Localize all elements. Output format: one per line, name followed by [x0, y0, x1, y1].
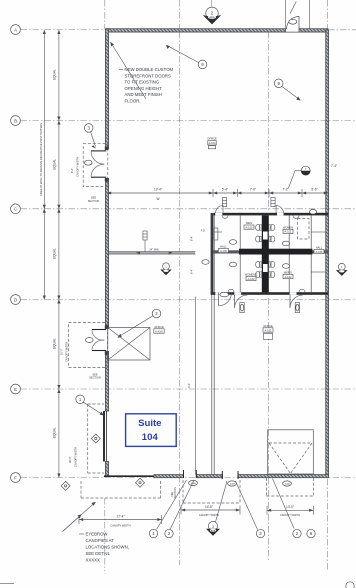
svg-text:MEN: MEN: [246, 221, 252, 225]
svg-text:OFFICE: OFFICE: [207, 137, 217, 141]
dimension arrows at grids: [43, 30, 61, 478]
svg-text:3: 3: [212, 525, 214, 529]
keynote circle 9 (top): [166, 45, 207, 69]
bottom-left border tick: [0, 583, 14, 585]
svg-text:14'-6": 14'-6": [205, 505, 213, 509]
bottom canopy dashes left: [81, 481, 161, 498]
svg-text:A-104: A-104: [285, 275, 292, 279]
core top wall: [214, 213, 329, 216]
bottom door 103B: [222, 471, 238, 486]
canopy dim left 17'-4": [79, 514, 162, 527]
central horizontal plumbing wall: [239, 249, 312, 255]
svg-text:13'-4": 13'-4": [154, 188, 162, 192]
svg-text:W: W: [156, 197, 159, 201]
svg-text:HALL: HALL: [220, 244, 227, 248]
keynote diamonds bottom: [61, 481, 70, 490]
svg-text:26'-0": 26'-0": [68, 456, 72, 463]
svg-text:CANOPY WIDTH: CANOPY WIDTH: [199, 513, 219, 517]
svg-text:A-104: A-104: [209, 141, 216, 145]
svg-text:XXXXX: XXXXX: [86, 558, 100, 563]
right wall: [326, 30, 329, 476]
left dimension chain lines: [43, 30, 45, 300]
svg-text:SECTION: SECTION: [89, 376, 101, 380]
hall door at core bottom-left: [215, 292, 231, 306]
grid bubble E: [11, 384, 21, 394]
grid line D: [21, 299, 356, 301]
svg-text:A-106: A-106: [316, 250, 323, 254]
24 MIN label + arrows on wall: [136, 251, 173, 254]
grid bubble A: [11, 25, 21, 35]
bottom canopy dashes mid: [183, 480, 240, 503]
ADA symbol bottom (3): [206, 521, 220, 535]
svg-text:104: 104: [142, 432, 159, 443]
svg-text:SECTION: SECTION: [88, 199, 100, 203]
Suite 104 box: [126, 414, 177, 447]
svg-text:7'-2": 7'-2": [282, 188, 288, 192]
core top door arcs: [216, 206, 223, 213]
svg-text:A-101: A-101: [285, 230, 292, 234]
F-entry canopy dashes: [68, 404, 104, 473]
grid line E: [21, 388, 356, 390]
svg-text:CANOPY WIDTH: CANOPY WIDTH: [76, 157, 80, 177]
keynote circle 2 with leader (Suite area): [117, 309, 161, 337]
svg-text:OPENING HEIGHT: OPENING HEIGHT: [125, 86, 163, 91]
svg-text:CANOPIES AT: CANOPIES AT: [86, 538, 115, 543]
lavs: [222, 215, 228, 218]
svg-text:A-100: A-100: [246, 225, 253, 229]
svg-text:EQUAL: EQUAL: [53, 69, 57, 80]
interior wall vertical (demising): [211, 213, 213, 475]
svg-text:13'-0": 13'-0": [286, 505, 294, 509]
canopy dim mid 14'-6": [181, 505, 240, 517]
grid line C: [21, 208, 356, 210]
svg-text:CANOPY WIDTH: CANOPY WIDTH: [65, 342, 69, 362]
mid horizontal wall thin: [213, 250, 328, 253]
svg-text:103A: 103A: [190, 482, 196, 485]
svg-text:4'-4": 4'-4": [187, 383, 191, 388]
eyebrow canopies note: [63, 502, 129, 563]
storefront note text: [111, 42, 174, 104]
restroom core: [211, 213, 328, 295]
svg-text:ADA: ADA: [211, 530, 216, 533]
bottom wall: [104, 475, 154, 477]
storefront dark left: [103, 411, 105, 462]
room tags: [218, 221, 324, 281]
svg-text:EQUAL: EQUAL: [53, 248, 57, 259]
left wall mid (B entry to D entry): [105, 179, 108, 329]
dashed closet: [298, 219, 310, 240]
office tag mid: [154, 325, 164, 334]
OFFICE 105 tag: [263, 324, 273, 340]
svg-text:CANOPY WIDTH: CANOPY WIDTH: [74, 447, 78, 467]
svg-text:TO FIT EXISTING: TO FIT EXISTING: [125, 80, 160, 85]
svg-text:A: A: [14, 27, 17, 32]
top wall: [107, 29, 286, 32]
svg-text:FLOOR.: FLOOR.: [125, 99, 141, 104]
svg-text:7'-0": 7'-0": [250, 188, 256, 192]
grid bubble F: [11, 473, 21, 483]
svg-text:A-103: A-103: [220, 249, 227, 253]
svg-text:F: F: [14, 475, 17, 480]
svg-text:E: E: [14, 387, 17, 392]
svg-text:A-105: A-105: [265, 328, 272, 332]
top-right exterior door: [286, 0, 310, 29]
keynote circle 9 (right): [274, 79, 300, 101]
svg-text:ADA: ADA: [209, 16, 215, 20]
svg-text:CANOPY WIDTH: CANOPY WIDTH: [280, 513, 300, 517]
ADA symbol top (2): [203, 7, 222, 24]
svg-text:D: D: [14, 297, 17, 302]
main dimension line y=193: [107, 192, 328, 194]
svg-text:EYEBROW: EYEBROW: [86, 532, 109, 537]
svg-text:EQUAL: EQUAL: [53, 427, 57, 438]
svg-text:100A: 100A: [284, 483, 290, 486]
grid bubble C: [11, 204, 21, 214]
door tag above wall: [143, 231, 147, 240]
door 100A oval: [283, 481, 292, 486]
keynote circle 1 (bottom-left entry): [76, 395, 104, 416]
svg-text:C: C: [14, 207, 17, 212]
ADA symbol left-mid: [160, 263, 172, 275]
grid line B: [21, 120, 356, 122]
oval door tags in core: [229, 240, 236, 245]
svg-text:F.D.: F.D.: [201, 229, 206, 233]
toilets: [213, 215, 305, 292]
bottom keynote circles + leaders: [149, 479, 315, 538]
core bottom doors: [235, 295, 303, 313]
svg-text:EQUAL: EQUAL: [53, 338, 57, 349]
D-entry double door: [86, 325, 109, 355]
svg-text:AREA OF WALL TO RECEIVE DECORA: AREA OF WALL TO RECEIVE DECORATIVE PAINT…: [39, 123, 43, 196]
svg-text:SEE DETAIL: SEE DETAIL: [86, 551, 111, 556]
interior wall horizontal y=252: [109, 251, 196, 253]
left wall upper: [105, 29, 108, 149]
svg-text:HALL: HALL: [316, 245, 323, 249]
office tag top (x 208-216): [207, 137, 217, 149]
core left wall: [211, 213, 214, 292]
bottom-right vestibule X box: [268, 430, 314, 474]
svg-text:WOMEN'S: WOMEN'S: [245, 272, 258, 276]
svg-text:103B: 103B: [229, 484, 235, 486]
B-entry canopy dashed: [70, 144, 108, 187]
svg-text:NEW DOUBLE CUSTOM: NEW DOUBLE CUSTOM: [125, 67, 174, 72]
left wall (D entry to storefront): [105, 352, 108, 412]
svg-text:B: B: [14, 118, 17, 123]
bottom door 103A: [170, 470, 198, 499]
svg-text:24" MIN: 24" MIN: [149, 248, 158, 252]
svg-text:OFFICE: OFFICE: [263, 324, 273, 328]
svg-text:7'-4": 7'-4": [331, 164, 337, 168]
keynote diamond (storefront): [91, 434, 100, 443]
svg-text:OFFICE: OFFICE: [154, 325, 164, 329]
svg-text:A-XXX: A-XXX: [155, 329, 163, 333]
grid bubble D: [11, 295, 21, 305]
svg-text:EQUAL: EQUAL: [53, 159, 57, 170]
keynote circle 3 (B entry): [84, 124, 96, 149]
vertical grid dash lines: [104, 0, 106, 29]
svg-text:6'-4": 6'-4": [190, 236, 194, 241]
svg-text:17'-4": 17'-4": [116, 514, 124, 518]
grid line A: [21, 29, 108, 31]
canopy dim right 13'-0": [267, 505, 313, 517]
svg-text:5'-4": 5'-4": [222, 188, 228, 192]
svg-text:A-102: A-102: [248, 277, 255, 281]
bottom right partial circle: [346, 582, 354, 588]
svg-text:6'-4": 6'-4": [190, 269, 194, 274]
svg-text:10'-2": 10'-2": [60, 348, 64, 355]
svg-text:MEN'S: MEN'S: [284, 270, 292, 274]
central vertical plumbing wall: [262, 215, 269, 292]
thin line x=195.5: [195, 297, 197, 475]
leader to wall: [111, 42, 147, 99]
D-entry canopy dashed: [60, 323, 108, 368]
B-entry double door: [85, 147, 109, 182]
svg-text:Suite: Suite: [138, 418, 161, 429]
svg-text:6'-4": 6'-4": [70, 168, 74, 173]
section cut symbol: [289, 166, 311, 188]
ADA symbol right: [336, 263, 348, 276]
grid line F: [21, 477, 356, 479]
svg-text:CANOPY WIDTH: CANOPY WIDTH: [110, 523, 130, 527]
stall walls: [239, 215, 241, 248]
svg-text:LOCATIONS SHOWN,: LOCATIONS SHOWN,: [86, 545, 129, 550]
bottom canopy dashes right: [267, 478, 314, 496]
left wall lower: [105, 462, 108, 477]
svg-text:SEE: SEE: [170, 492, 174, 497]
core bottom wall: [211, 292, 328, 295]
grid bubble B: [11, 116, 21, 126]
window tags above dim line: [222, 198, 275, 207]
svg-text:WOMEN: WOMEN: [283, 225, 293, 229]
vestibule X box at D entry: [108, 328, 150, 361]
svg-text:5'-6": 5'-6": [311, 188, 317, 192]
